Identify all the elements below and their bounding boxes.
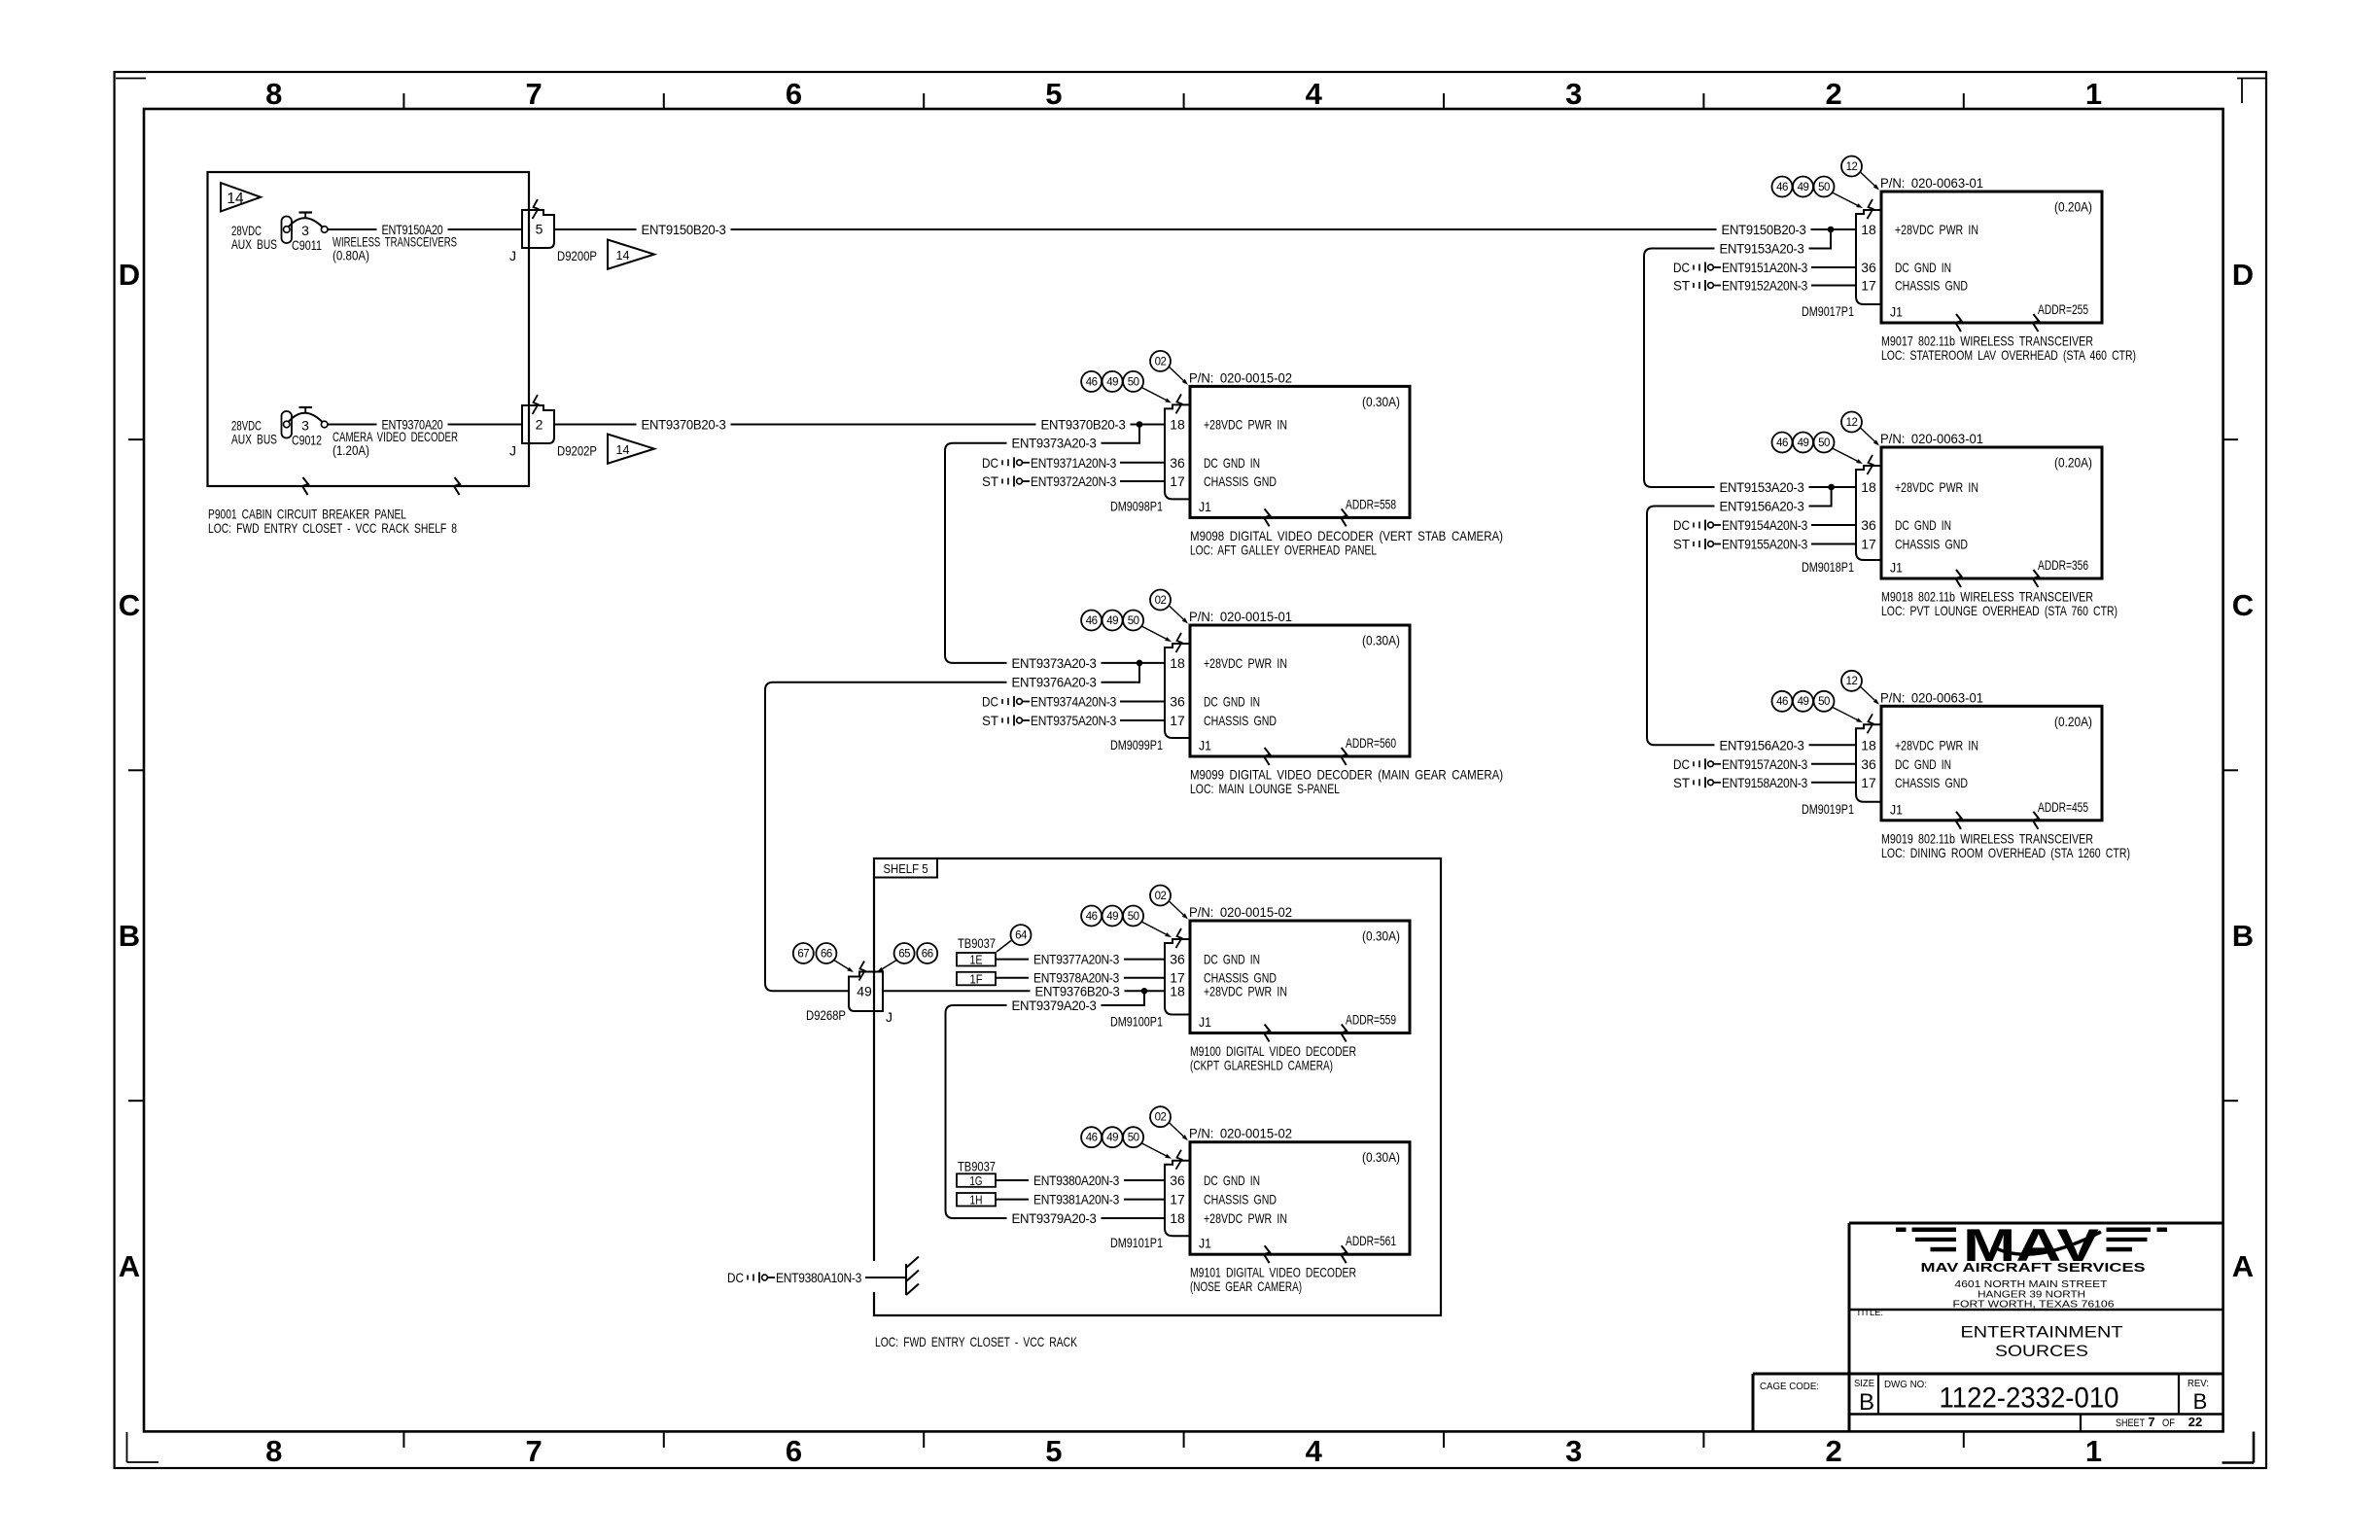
svg-text:46: 46 [1086, 911, 1098, 923]
svg-text:22: 22 [2188, 1415, 2202, 1429]
svg-text:DM9098P1: DM9098P1 [1110, 498, 1163, 513]
svg-text:DC GND IN: DC GND IN [1204, 694, 1260, 710]
svg-text:1H: 1H [970, 1194, 983, 1207]
svg-text:DM9017P1: DM9017P1 [1802, 303, 1854, 319]
svg-text:1F: 1F [970, 972, 983, 986]
svg-text:(0.30A): (0.30A) [1362, 394, 1400, 409]
svg-text:ENT9154A20N-3: ENT9154A20N-3 [1722, 517, 1807, 533]
svg-text:ENT9156A20-3: ENT9156A20-3 [1720, 737, 1804, 752]
svg-text:LOC: DINING ROOM OVERHEAD (STA: LOC: DINING ROOM OVERHEAD (STA 1260 CTR) [1881, 845, 2130, 860]
svg-text:ENT9374A20N-3: ENT9374A20N-3 [1031, 694, 1116, 710]
svg-text:DC: DC [1673, 517, 1690, 533]
svg-text:17: 17 [1170, 473, 1185, 489]
svg-text:67: 67 [797, 948, 809, 960]
svg-text:DC GND IN: DC GND IN [1895, 756, 1951, 772]
wire ENT9377A20N-3 (1E to M9100 pin 36) [996, 959, 1165, 961]
svg-text:ENT9152A20N-3: ENT9152A20N-3 [1722, 278, 1807, 294]
svg-text:ST: ST [1673, 537, 1690, 552]
svg-text:CAGE CODE:: CAGE CODE: [1760, 1381, 1819, 1392]
svg-text:J1: J1 [1199, 1014, 1211, 1030]
svg-text:ADDR=560: ADDR=560 [1346, 735, 1396, 751]
svg-text:+28VDC PWR IN: +28VDC PWR IN [1204, 417, 1287, 433]
svg-text:ADDR=558: ADDR=558 [1346, 496, 1396, 511]
svg-text:+28VDC PWR IN: +28VDC PWR IN [1204, 1210, 1287, 1226]
svg-text:LOC: FWD ENTRY CLOSET - VCC RA: LOC: FWD ENTRY CLOSET - VCC RACK SHELF 8 [208, 520, 457, 536]
junction node on ENT9373A20-3 [1137, 660, 1143, 667]
svg-text:50: 50 [1128, 615, 1139, 627]
svg-text:18: 18 [1861, 737, 1876, 752]
svg-text:2: 2 [1825, 77, 1841, 111]
inner border frame [144, 109, 2223, 1431]
svg-text:1122-2332-010: 1122-2332-010 [1940, 1382, 2119, 1415]
svg-text:4601 NORTH MAIN STREET: 4601 NORTH MAIN STREET [1955, 1279, 2108, 1290]
svg-text:B: B [2193, 1389, 2208, 1414]
terminal 1G [957, 1173, 996, 1187]
svg-text:ENT9379A20-3: ENT9379A20-3 [1012, 1210, 1097, 1226]
wire ENT9156A20-3 (branch to M9019 pin 18) [1647, 487, 1856, 745]
break on P9001 bottom edge [302, 477, 308, 495]
svg-text:1: 1 [2085, 1434, 2102, 1468]
svg-text:OF: OF [2162, 1417, 2175, 1429]
svg-text:ENT9150B20-3: ENT9150B20-3 [1722, 222, 1806, 237]
svg-text:D: D [2232, 258, 2254, 292]
svg-text:LOC: FWD ENTRY CLOSET - VCC RA: LOC: FWD ENTRY CLOSET - VCC RACK [875, 1334, 1077, 1349]
svg-text:2: 2 [536, 417, 543, 433]
svg-text:C: C [2232, 588, 2254, 622]
wire ENT9381A20N-3 (1H to M9101 pin 17) [996, 1199, 1165, 1201]
svg-text:66: 66 [821, 948, 832, 960]
terminal 1E [957, 953, 996, 966]
svg-text:18: 18 [1170, 983, 1185, 998]
svg-text:SHEET: SHEET [2116, 1417, 2145, 1429]
svg-text:02: 02 [1155, 1112, 1167, 1124]
svg-text:ENT9379A20-3: ENT9379A20-3 [1012, 997, 1097, 1013]
svg-text:B: B [1859, 1389, 1874, 1416]
svg-text:36: 36 [1170, 455, 1185, 471]
decoder M9098 digital video decoder (vert stab camera) [1081, 351, 1503, 558]
svg-text:(0.30A): (0.30A) [1362, 633, 1400, 648]
svg-text:36: 36 [1170, 1172, 1185, 1188]
svg-text:46: 46 [1776, 696, 1788, 708]
svg-text:LOC: STATEROOM LAV OVERHEAD (S: LOC: STATEROOM LAV OVERHEAD (STA 460 CTR… [1881, 347, 2136, 363]
svg-text:49: 49 [1798, 696, 1809, 708]
svg-text:J1: J1 [1890, 304, 1903, 320]
svg-text:14: 14 [227, 191, 244, 207]
svg-text:49: 49 [1106, 911, 1118, 923]
svg-text:ENT9380A20N-3: ENT9380A20N-3 [1033, 1172, 1119, 1188]
svg-text:SIZE: SIZE [1854, 1378, 1874, 1389]
svg-text:P/N: 020-0063-01: P/N: 020-0063-01 [1880, 175, 1983, 191]
svg-text:C: C [119, 588, 140, 622]
svg-text:(0.30A): (0.30A) [1362, 1149, 1400, 1165]
svg-text:ENT9153A20-3: ENT9153A20-3 [1720, 241, 1804, 257]
svg-text:ENT9158A20N-3: ENT9158A20N-3 [1722, 775, 1807, 790]
wire ENT9153A20-3 (branch to M9018 pin 18) [1644, 229, 1856, 487]
svg-text:ADDR=561: ADDR=561 [1346, 1233, 1396, 1248]
svg-text:AUX BUS: AUX BUS [231, 432, 277, 447]
svg-text:ADDR=559: ADDR=559 [1346, 1012, 1396, 1028]
svg-text:ADDR=255: ADDR=255 [2038, 301, 2088, 317]
wire ENT9380A20N-3 (1G to M9101 pin 36) [996, 1179, 1165, 1181]
svg-text:SHELF 5: SHELF 5 [884, 862, 928, 876]
svg-text:4: 4 [1306, 1434, 1323, 1468]
svg-text:D9200P: D9200P [557, 248, 597, 263]
svg-text:5: 5 [1045, 77, 1062, 111]
svg-text:14: 14 [616, 249, 630, 262]
svg-text:46: 46 [1776, 437, 1788, 449]
svg-text:17: 17 [1861, 537, 1876, 552]
svg-text:ST: ST [982, 713, 998, 728]
svg-text:DM9019P1: DM9019P1 [1802, 801, 1854, 817]
transceiver M9019 802.11b wireless transceiver [1772, 671, 2131, 860]
svg-text:ST: ST [1673, 775, 1690, 790]
wire ENT9150A20 [328, 228, 522, 230]
decoder M9099 digital video decoder (main gear camera) [1081, 590, 1503, 797]
svg-text:DC: DC [1673, 260, 1690, 275]
transceiver M9018 802.11b wireless transceiver [1772, 412, 2118, 619]
svg-text:DC GND IN: DC GND IN [1204, 1172, 1260, 1188]
svg-text:P/N: 020-0063-01: P/N: 020-0063-01 [1880, 431, 1983, 446]
svg-text:(0.30A): (0.30A) [1362, 928, 1400, 944]
svg-text:P/N: 020-0015-02: P/N: 020-0015-02 [1189, 904, 1292, 920]
svg-text:ENT9377A20N-3: ENT9377A20N-3 [1033, 952, 1119, 967]
svg-text:ENT9150A20: ENT9150A20 [382, 222, 443, 237]
svg-text:ENT9372A20N-3: ENT9372A20N-3 [1031, 473, 1116, 489]
svg-text:12: 12 [1846, 161, 1858, 173]
svg-text:TB9037: TB9037 [958, 935, 996, 951]
svg-text:LOC: PVT LOUNGE OVERHEAD (STA: LOC: PVT LOUNGE OVERHEAD (STA 760 CTR) [1881, 603, 2117, 618]
svg-text:12: 12 [1846, 417, 1858, 429]
svg-text:(CKPT GLARESHLD CAMERA): (CKPT GLARESHLD CAMERA) [1190, 1058, 1333, 1073]
svg-text:6: 6 [786, 1434, 802, 1468]
svg-text:02: 02 [1155, 595, 1167, 607]
svg-text:+28VDC PWR IN: +28VDC PWR IN [1204, 983, 1287, 998]
svg-text:2: 2 [1825, 1434, 1841, 1468]
terminal 1F [957, 972, 996, 986]
svg-text:LOC: MAIN LOUNGE S-PANEL: LOC: MAIN LOUNGE S-PANEL [1190, 781, 1340, 796]
svg-text:49: 49 [1106, 615, 1118, 627]
svg-text:ENT9157A20N-3: ENT9157A20N-3 [1722, 756, 1807, 772]
svg-text:ENT9151A20N-3: ENT9151A20N-3 [1722, 260, 1807, 275]
svg-text:D: D [119, 258, 140, 292]
svg-text:SOURCES: SOURCES [1995, 1342, 2088, 1360]
svg-text:36: 36 [1861, 260, 1876, 275]
svg-text:7: 7 [525, 1434, 542, 1468]
svg-text:65: 65 [898, 948, 910, 960]
svg-text:DM9099P1: DM9099P1 [1110, 737, 1163, 752]
svg-text:CHASSIS GND: CHASSIS GND [1895, 537, 1968, 552]
zone boundary ticks [402, 93, 404, 109]
panel P9001 cabin circuit breaker panel [208, 172, 530, 486]
wire ENT9373A20-3 (branch to M9099 pin 18) [945, 425, 1165, 663]
terminal 1H [957, 1193, 996, 1207]
svg-text:D9202P: D9202P [557, 443, 597, 459]
svg-text:50: 50 [1128, 911, 1139, 923]
svg-text:18: 18 [1170, 417, 1185, 433]
svg-text:50: 50 [1128, 1133, 1139, 1144]
svg-text:ENT9370B20-3: ENT9370B20-3 [642, 417, 726, 433]
svg-text:J1: J1 [1890, 560, 1903, 576]
svg-text:ENTERTAINMENT: ENTERTAINMENT [1961, 1322, 2123, 1341]
svg-text:J1: J1 [1199, 499, 1211, 514]
svg-text:ENT9150B20-3: ENT9150B20-3 [642, 222, 726, 237]
svg-text:REV:: REV: [2187, 1378, 2209, 1389]
svg-text:36: 36 [1861, 517, 1876, 533]
svg-text:49: 49 [1106, 376, 1118, 388]
corner trim marks [116, 78, 146, 80]
svg-text:DM9101P1: DM9101P1 [1110, 1235, 1163, 1250]
svg-text:CHASSIS GND: CHASSIS GND [1895, 278, 1968, 294]
svg-text:J: J [509, 248, 516, 263]
svg-text:4: 4 [1306, 77, 1323, 111]
svg-text:B: B [119, 919, 140, 953]
svg-text:+28VDC PWR IN: +28VDC PWR IN [1895, 737, 1978, 752]
connector D9268P (pin 49) [849, 972, 883, 1012]
svg-text:3: 3 [1565, 77, 1582, 111]
svg-text:46: 46 [1086, 376, 1098, 388]
svg-text:DC GND IN: DC GND IN [1204, 455, 1260, 471]
wire bundle circles 67/66 at D9268P [793, 943, 814, 963]
svg-text:C9012: C9012 [292, 433, 322, 448]
svg-text:ENT9370B20-3: ENT9370B20-3 [1041, 417, 1126, 433]
svg-text:ENT9371A20N-3: ENT9371A20N-3 [1031, 455, 1116, 471]
wire ENT9376B20-3 (D9268P to M9100 pin 18) [883, 990, 1165, 992]
svg-text:J: J [509, 443, 516, 459]
svg-text:DM9100P1: DM9100P1 [1110, 1014, 1163, 1030]
svg-text:FORT WORTH, TEXAS 76106: FORT WORTH, TEXAS 76106 [1953, 1300, 2116, 1311]
svg-text:P/N: 020-0015-02: P/N: 020-0015-02 [1189, 1126, 1292, 1141]
svg-text:5: 5 [536, 222, 543, 237]
wire ENT9379A20-3 (branch to M9101 pin 18) [946, 991, 1166, 1218]
svg-text:ENT9153A20-3: ENT9153A20-3 [1720, 479, 1804, 495]
svg-text:DC: DC [727, 1270, 744, 1285]
shelf 5 enclosure (FWD entry closet VCC rack) [874, 858, 1441, 1315]
svg-text:J1: J1 [1199, 1236, 1211, 1251]
svg-text:DWG NO:: DWG NO: [1884, 1379, 1927, 1390]
svg-text:18: 18 [1170, 655, 1185, 671]
wire bundle circles 65/66 at D9268P [894, 943, 915, 963]
svg-text:3: 3 [301, 223, 309, 238]
svg-text:DM9018P1: DM9018P1 [1802, 559, 1854, 575]
wire ENT9150B20-3 (D9200P to M9017 pin 18) [554, 228, 1856, 230]
svg-text:+28VDC PWR IN: +28VDC PWR IN [1895, 222, 1978, 237]
wire ENT9376A20-3 (branch to D9268P) [765, 663, 1139, 991]
svg-text:CHASSIS GND: CHASSIS GND [1204, 473, 1277, 489]
svg-text:50: 50 [1128, 376, 1139, 388]
svg-text:(NOSE GEAR CAMERA): (NOSE GEAR CAMERA) [1190, 1278, 1302, 1294]
svg-text:49: 49 [857, 983, 872, 998]
svg-text:B: B [2232, 919, 2254, 953]
svg-text:A: A [2232, 1249, 2254, 1283]
svg-text:50: 50 [1818, 437, 1830, 449]
svg-text:ENT9378A20N-3: ENT9378A20N-3 [1033, 970, 1119, 986]
svg-text:CHASSIS GND: CHASSIS GND [1204, 1192, 1277, 1207]
svg-text:7: 7 [525, 77, 542, 111]
connector D9202P (panel disconnect, pin 2) [522, 405, 554, 443]
svg-text:ADDR=356: ADDR=356 [2038, 557, 2088, 573]
svg-text:5: 5 [1045, 1434, 1062, 1468]
svg-text:DC: DC [982, 694, 998, 710]
svg-text:50: 50 [1818, 182, 1830, 193]
svg-text:49: 49 [1106, 1133, 1118, 1144]
chassis ground symbol [905, 1264, 907, 1295]
svg-text:8: 8 [265, 1434, 282, 1468]
svg-text:DC GND IN: DC GND IN [1895, 517, 1951, 533]
svg-text:DC: DC [982, 455, 998, 471]
svg-text:50: 50 [1818, 696, 1830, 708]
svg-text:6: 6 [786, 77, 802, 111]
svg-text:ENT9380A10N-3: ENT9380A10N-3 [776, 1270, 861, 1285]
decoder M9101 digital video decoder (nose gear camera) [1081, 1106, 1410, 1294]
svg-text:(1.20A): (1.20A) [332, 442, 369, 458]
svg-text:ENT9375A20N-3: ENT9375A20N-3 [1031, 713, 1116, 728]
title block [1753, 1223, 2223, 1431]
flag 14 (sheet reference) top-left [221, 183, 261, 212]
svg-text:02: 02 [1155, 891, 1167, 902]
svg-text:ENT9376A20-3: ENT9376A20-3 [1012, 675, 1097, 690]
svg-text:3: 3 [1565, 1434, 1582, 1468]
svg-text:17: 17 [1170, 713, 1185, 728]
svg-text:(0.20A): (0.20A) [2054, 714, 2092, 729]
svg-text:P/N: 020-0063-01: P/N: 020-0063-01 [1880, 689, 1983, 705]
svg-text:18: 18 [1861, 222, 1876, 237]
svg-text:CHASSIS GND: CHASSIS GND [1895, 775, 1968, 790]
svg-text:ENT9370A20: ENT9370A20 [382, 417, 443, 433]
svg-text:36: 36 [1170, 694, 1185, 710]
svg-text:J1: J1 [1199, 738, 1211, 753]
svg-text:3: 3 [301, 418, 309, 434]
wire ENT9378A20N-3 (1F to M9100 pin 17) [996, 977, 1165, 979]
svg-text:17: 17 [1861, 775, 1876, 790]
svg-text:18: 18 [1170, 1210, 1185, 1226]
svg-text:(0.20A): (0.20A) [2054, 199, 2092, 215]
decoder M9100 digital video decoder (ckpt glareshld camera) [1081, 886, 1410, 1073]
svg-text:TITLE:: TITLE: [1856, 1307, 1883, 1318]
svg-text:D9268P: D9268P [806, 1007, 846, 1023]
svg-text:ST: ST [982, 473, 998, 489]
svg-text:(0.80A): (0.80A) [332, 248, 369, 263]
svg-text:46: 46 [1776, 182, 1788, 193]
svg-text:17: 17 [1170, 1192, 1185, 1207]
svg-text:49: 49 [1798, 437, 1809, 449]
svg-text:ENT9155A20N-3: ENT9155A20N-3 [1722, 537, 1807, 552]
transceiver M9017 802.11b wireless transceiver [1772, 157, 2137, 364]
svg-text:TB9037: TB9037 [958, 1159, 996, 1174]
svg-text:02: 02 [1155, 356, 1167, 367]
svg-text:LOC: AFT GALLEY OVERHEAD PANEL: LOC: AFT GALLEY OVERHEAD PANEL [1190, 542, 1377, 557]
svg-text:(0.20A): (0.20A) [2054, 455, 2092, 471]
svg-text:DC GND IN: DC GND IN [1204, 952, 1260, 967]
svg-text:46: 46 [1086, 615, 1098, 627]
svg-text:7: 7 [2148, 1415, 2154, 1429]
svg-text:8: 8 [265, 77, 282, 111]
junction node on ENT9376B20-3 [1141, 988, 1148, 995]
svg-text:49: 49 [1798, 182, 1809, 193]
svg-text:A: A [119, 1249, 140, 1283]
svg-text:36: 36 [1170, 952, 1185, 967]
svg-text:1G: 1G [970, 1174, 983, 1188]
flag 14 after D9202P [608, 435, 654, 464]
svg-text:DC: DC [1673, 756, 1690, 772]
svg-text:ST: ST [1673, 278, 1690, 294]
wire ENT9370B20-3 (D9202P to M9098 pin 18) [554, 424, 1165, 426]
svg-text:18: 18 [1861, 479, 1876, 495]
junction node on ENT9370B20-3 [1137, 421, 1143, 428]
svg-text:1E: 1E [970, 954, 983, 967]
connector D9200P (panel disconnect, pin 5) [522, 210, 554, 248]
svg-text:MAV AIRCRAFT SERVICES: MAV AIRCRAFT SERVICES [1921, 1260, 2146, 1275]
svg-text:ENT9373A20-3: ENT9373A20-3 [1012, 436, 1097, 451]
junction node on ENT9150B20-3 [1828, 227, 1835, 233]
junction node on ENT9153A20-3 [1828, 484, 1835, 491]
wire ENT9370A20 [328, 424, 522, 426]
svg-text:17: 17 [1861, 278, 1876, 294]
svg-text:12: 12 [1846, 676, 1858, 687]
svg-text:P/N: 020-0015-01: P/N: 020-0015-01 [1189, 609, 1292, 624]
svg-text:14: 14 [616, 443, 630, 457]
svg-text:+28VDC PWR IN: +28VDC PWR IN [1204, 655, 1287, 671]
svg-text:J1: J1 [1890, 801, 1903, 817]
circle 64 callout [1011, 925, 1032, 945]
svg-text:36: 36 [1861, 756, 1876, 772]
MAV logo [1896, 1219, 2167, 1311]
svg-text:ENT9381A20N-3: ENT9381A20N-3 [1033, 1192, 1119, 1207]
flag 14 after D9200P [608, 240, 654, 269]
svg-text:66: 66 [922, 948, 933, 960]
svg-text:1: 1 [2085, 77, 2102, 111]
svg-text:46: 46 [1086, 1133, 1098, 1144]
svg-text:+28VDC PWR IN: +28VDC PWR IN [1895, 479, 1978, 495]
svg-text:ADDR=455: ADDR=455 [2038, 799, 2088, 815]
svg-text:P/N: 020-0015-02: P/N: 020-0015-02 [1189, 369, 1292, 385]
svg-text:J: J [886, 1009, 892, 1025]
svg-text:CHASSIS GND: CHASSIS GND [1204, 713, 1277, 728]
svg-text:AUX BUS: AUX BUS [231, 236, 277, 252]
svg-text:ENT9156A20-3: ENT9156A20-3 [1720, 499, 1804, 514]
svg-text:C9011: C9011 [292, 237, 322, 253]
svg-text:ENT9373A20-3: ENT9373A20-3 [1012, 655, 1097, 671]
svg-text:DC GND IN: DC GND IN [1895, 260, 1951, 275]
svg-text:64: 64 [1015, 930, 1028, 942]
